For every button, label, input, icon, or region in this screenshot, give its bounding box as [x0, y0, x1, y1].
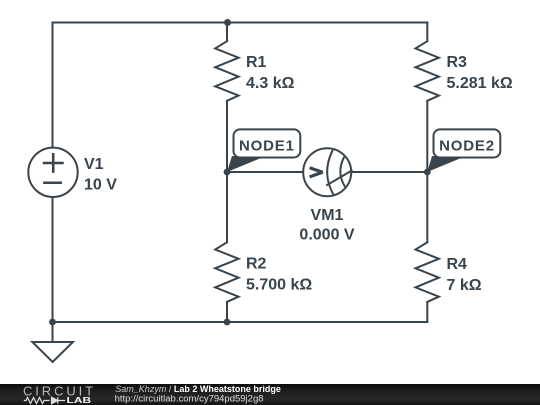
svg-text:5.700 kΩ: 5.700 kΩ — [246, 277, 312, 294]
svg-text:VM1: VM1 — [311, 207, 344, 224]
svg-text:R3: R3 — [447, 54, 468, 71]
logo CIRCUIT text — [23, 383, 96, 398]
junction dot node1 — [224, 169, 231, 176]
junction dot bottom middle — [224, 319, 231, 326]
svg-text:5.281 kΩ: 5.281 kΩ — [447, 75, 513, 92]
svg-text:R2: R2 — [246, 256, 267, 273]
junction dot ground node — [49, 319, 56, 326]
label R2 name — [246, 256, 267, 273]
wire left vertical upper — [52, 23, 54, 148]
label R1 value — [246, 75, 295, 92]
svg-text:NODE2: NODE2 — [439, 138, 495, 155]
logo resistor zigzag and diode — [24, 397, 65, 404]
wire right vertical upper lead — [426, 23, 428, 42]
wire R4 to bottom — [426, 302, 428, 322]
svg-text:4.3 kΩ: 4.3 kΩ — [246, 75, 295, 92]
node label NODE1 — [227, 129, 300, 172]
svg-text:R4: R4 — [447, 256, 468, 273]
resistor R3 — [416, 41, 439, 101]
svg-text:LAB: LAB — [67, 397, 92, 405]
svg-text:NODE1: NODE1 — [239, 138, 295, 155]
wire middle branch upper lead — [226, 23, 228, 42]
junction dot top middle — [224, 19, 231, 26]
label R1 name — [246, 54, 267, 71]
wire R2 to bottom — [226, 302, 228, 322]
node label NODE2 text — [439, 138, 495, 155]
voltmeter VM1 — [303, 148, 351, 196]
wire voltmeter to node2 — [352, 171, 427, 173]
node label NODE1 text — [239, 138, 295, 155]
label V1 value — [84, 177, 117, 194]
voltage source V1 — [28, 148, 77, 197]
wire R3 to node2 — [426, 101, 428, 172]
junction dot node2 — [424, 169, 431, 176]
footer url line — [115, 393, 264, 404]
ground — [32, 322, 73, 362]
label VM1 name — [311, 207, 344, 224]
node label NODE2 — [427, 129, 500, 172]
wire node1 to voltmeter — [227, 171, 302, 173]
svg-text:0.000 V: 0.000 V — [299, 227, 354, 244]
label V1 name — [84, 156, 104, 173]
footer bar — [0, 384, 540, 405]
wire R1 to node1 — [226, 101, 228, 172]
svg-text:7 kΩ: 7 kΩ — [447, 277, 482, 294]
wire node2 to R4 — [426, 172, 428, 242]
svg-text:http://circuitlab.com/cy794pd5: http://circuitlab.com/cy794pd59j2g8 — [115, 393, 264, 404]
label R4 name — [447, 256, 468, 273]
label R2 value — [246, 277, 312, 294]
svg-text:V1: V1 — [84, 156, 104, 173]
label VM1 value — [299, 227, 354, 244]
logo LAB text — [67, 397, 92, 405]
wire bottom horizontal — [53, 321, 428, 323]
wire node1 to R2 — [226, 172, 228, 242]
resistor R2 — [215, 242, 238, 302]
wire top horizontal — [53, 22, 428, 24]
label R3 name — [447, 54, 468, 71]
footer title line — [115, 384, 281, 394]
label R3 value — [447, 75, 513, 92]
resistor R1 — [215, 41, 238, 101]
wire left vertical lower — [52, 198, 54, 323]
svg-text:R1: R1 — [246, 54, 267, 71]
resistor R4 — [416, 242, 439, 302]
label R4 value — [447, 277, 482, 294]
svg-text:10 V: 10 V — [84, 177, 117, 194]
